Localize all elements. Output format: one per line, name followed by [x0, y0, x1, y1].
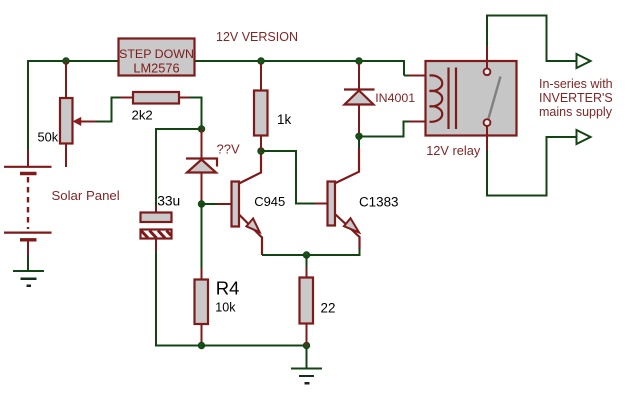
output arrow top [577, 54, 591, 68]
wire relay bottom pin to output [487, 137, 576, 196]
svg-text:STEP DOWN: STEP DOWN [119, 47, 194, 61]
wire 22 bottom pin [306, 324, 308, 346]
wire top rail right (LM2576 to relay) [195, 61, 404, 76]
zener diode D2 ??V [186, 159, 217, 173]
wire R4 top pin [201, 268, 203, 280]
wire wiper to 2k2 [96, 98, 121, 122]
wire zener node to cap 33u [156, 129, 202, 207]
node emitter rail junction [303, 252, 309, 258]
wire C945 base pin [217, 203, 231, 205]
wire R4 bottom pin [201, 324, 203, 346]
svg-text:1k: 1k [277, 112, 291, 127]
node bottom rail R4 junction [198, 342, 204, 348]
svg-text:12V relay: 12V relay [426, 143, 481, 158]
wire 2k2 to zener node [190, 98, 202, 130]
resistor R-1k body [254, 64, 268, 151]
wire relay coil pin 2 [409, 121, 431, 123]
wire base node to C945 base [202, 203, 219, 205]
node 1k top junction [258, 58, 264, 64]
ground main [291, 348, 322, 383]
resistor R-22 body [300, 278, 314, 324]
wire pot bottom stub [65, 144, 67, 168]
relay switch contacts [484, 68, 491, 75]
svg-text:INVERTER'S: INVERTER'S [539, 91, 613, 105]
wire 2k2 right pin [179, 97, 191, 99]
wire battery to ground [27, 255, 29, 270]
capacitor C1 33u [141, 213, 172, 239]
svg-text:2k2: 2k2 [132, 108, 153, 123]
svg-text:50k: 50k [38, 130, 59, 145]
component U1 STEP DOWN LM2576 box [119, 39, 195, 76]
potentiometer wiper arrow [73, 117, 81, 125]
node bottom rail ground junction [303, 342, 309, 348]
svg-text:C1383: C1383 [359, 195, 398, 210]
node zener top junction [198, 126, 204, 132]
wire zener anode pin [201, 173, 203, 205]
wire relay top pin to output [487, 16, 576, 61]
wire cap to bottom rail [156, 252, 202, 346]
wire 22 top pin [306, 255, 308, 268]
relay switch pins [486, 45, 488, 68]
ground battery [13, 271, 44, 286]
wire 1k junction to C1383 base [261, 151, 316, 204]
wire diode top to relay coil [404, 75, 410, 77]
svg-text:??V: ??V [217, 142, 240, 157]
wire top rail left (battery to LM2576) [28, 61, 118, 152]
relay K1 12V relay [426, 45, 517, 151]
transistor Q1 C945 [232, 152, 263, 255]
svg-text:C945: C945 [254, 194, 285, 209]
svg-text:In-series with: In-series with [539, 77, 613, 91]
wire base node down to R4 [201, 204, 203, 269]
svg-text:Solar Panel: Solar Panel [52, 188, 120, 203]
relay coil [430, 75, 443, 121]
svg-text:mains supply: mains supply [539, 105, 613, 119]
wire battery positive stub [27, 150, 29, 166]
resistor R-2k2 body [133, 92, 179, 104]
node diode bottom junction [356, 133, 362, 139]
node diode top junction [356, 58, 362, 64]
relay core lines [449, 68, 457, 130]
svg-text:33u: 33u [157, 194, 180, 209]
wire 22 top pin stub [306, 267, 308, 278]
wire pot top pin [65, 61, 67, 98]
output arrow bottom [577, 130, 591, 144]
svg-text:12V VERSION: 12V VERSION [216, 30, 298, 44]
svg-text:LM2576: LM2576 [133, 61, 179, 76]
wire emitter rail [262, 248, 360, 255]
relay switch arm [489, 77, 501, 119]
node base junction [198, 201, 204, 207]
svg-text:R4: R4 [216, 278, 240, 299]
wire bottom rail to ground [202, 345, 307, 347]
wire relay coil pin 1 [409, 75, 431, 77]
wire zener cathode pin [201, 129, 203, 158]
resistor R4 10k body [195, 280, 209, 325]
wire C1383 base pin [315, 203, 328, 205]
svg-text:22: 22 [321, 301, 336, 316]
label In-series with INVERTER'S mains supply [539, 77, 613, 119]
svg-text:IN4001: IN4001 [375, 91, 415, 105]
svg-text:10k: 10k [215, 301, 236, 315]
battery B1 Solar Panel [4, 167, 52, 256]
transistor Q2 C1383 [328, 139, 360, 249]
wire diode bottom to relay coil [359, 122, 410, 137]
node top-left junction [63, 58, 69, 64]
potentiometer VR1 50k body [60, 98, 96, 144]
wire cap bottom pin [155, 239, 157, 253]
node 1k bottom junction [258, 148, 264, 154]
wire 2k2 left pin [120, 97, 133, 99]
diode D1 IN4001 [344, 64, 375, 136]
wire cap top pin [155, 206, 157, 213]
